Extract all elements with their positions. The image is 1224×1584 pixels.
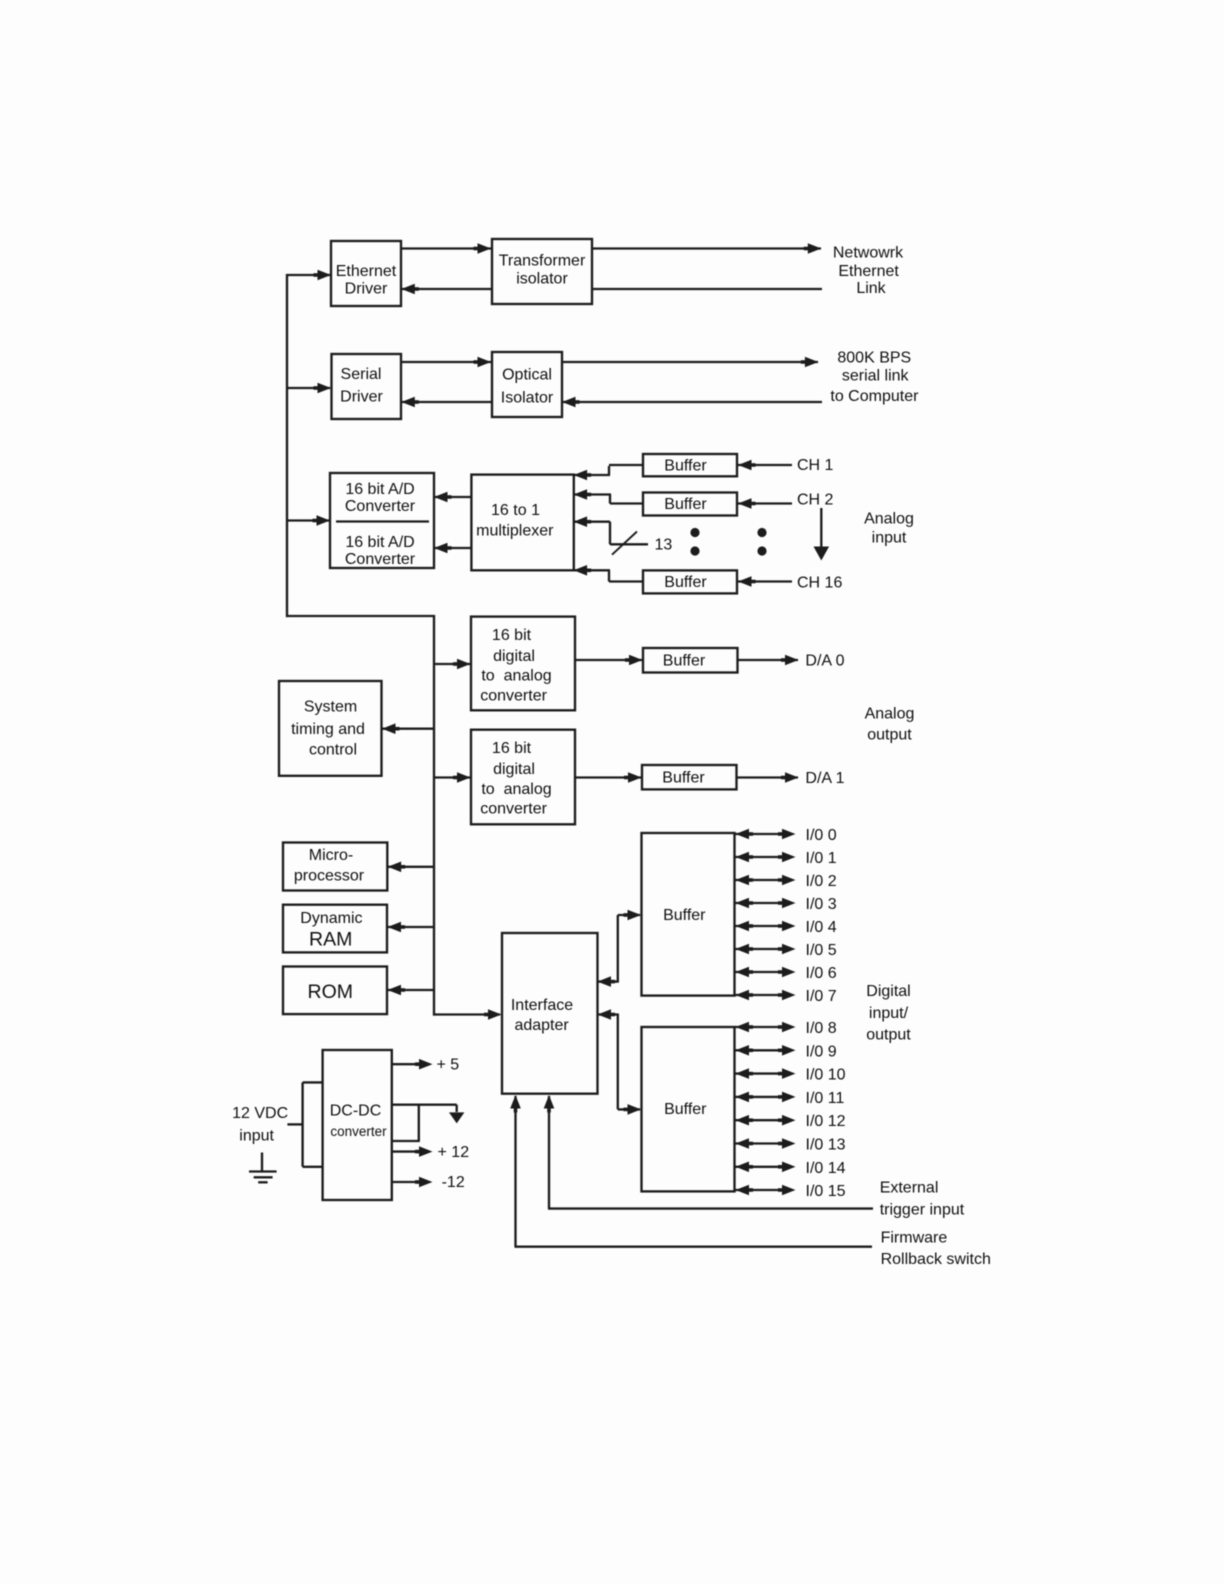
arrow I/O 9 into Buffer xyxy=(736,1045,750,1056)
svg-text:I/0 10: I/0 10 xyxy=(806,1067,846,1084)
svg-text:Analog: Analog xyxy=(865,706,915,723)
wire branch to Dynamic RAM xyxy=(388,926,435,928)
arrow I/O 0 outward xyxy=(782,829,796,840)
arrow mux input CH1 xyxy=(574,470,588,481)
arrow I/O 13 into Buffer xyxy=(736,1138,750,1149)
wire DAC 1 to Buffer xyxy=(575,776,641,778)
block DAC 1 (16 bit digital to analog converter) xyxy=(471,730,575,825)
block ROM xyxy=(283,967,387,1015)
wire +5 output xyxy=(391,1063,419,1065)
svg-text:Isolator: Isolator xyxy=(501,390,554,407)
wire -12 output xyxy=(391,1181,419,1183)
wire bus-right vertical xyxy=(433,615,435,1016)
svg-text:16 to 1: 16 to 1 xyxy=(491,502,540,519)
svg-text:CH 2: CH 2 xyxy=(797,492,834,509)
svg-text:D/A 1: D/A 1 xyxy=(805,770,844,787)
svg-text:Buffer: Buffer xyxy=(664,1101,707,1118)
arrow into Micro-processor xyxy=(388,862,402,873)
arrow into Transformer isolator xyxy=(478,243,492,254)
arrow network link out xyxy=(808,243,822,254)
svg-text:multiplexer: multiplexer xyxy=(476,522,554,539)
svg-text:Converter: Converter xyxy=(345,551,416,568)
arrow lower link into Interface adapter xyxy=(598,1009,612,1020)
ground symbol xyxy=(261,1153,263,1173)
wire I/O 6 line xyxy=(735,971,789,973)
svg-text:I/0 11: I/0 11 xyxy=(806,1090,845,1107)
svg-text:to analog: to analog xyxy=(481,781,551,798)
arrow CH2 into Buffer xyxy=(738,498,752,509)
arrow upper link into Interface adapter xyxy=(598,976,612,987)
arrow -12 xyxy=(419,1177,433,1188)
svg-text:input/: input/ xyxy=(869,1005,909,1022)
svg-text:Buffer: Buffer xyxy=(664,496,707,513)
arrow into Serial Driver xyxy=(318,383,332,394)
wire input bracket xyxy=(301,1082,303,1166)
wire Interface adapter to upper Buffer xyxy=(597,980,618,982)
svg-text:CH 1: CH 1 xyxy=(797,457,834,474)
svg-text:Optical: Optical xyxy=(502,367,552,384)
wire I/O 0 line xyxy=(735,833,789,835)
wire DAC 0 to Buffer xyxy=(575,659,642,661)
svg-text:+ 12: + 12 xyxy=(438,1144,470,1161)
svg-text:Link: Link xyxy=(856,280,886,297)
block Buffer CH1 xyxy=(643,454,737,476)
svg-text:digital: digital xyxy=(493,761,535,778)
arrow I/O 4 outward xyxy=(782,921,796,932)
arrow +5 xyxy=(419,1059,433,1070)
wire Ethernet Driver to Transformer isolator (tx) xyxy=(401,247,821,249)
svg-text:Driver: Driver xyxy=(345,281,388,298)
wire I/O 5 line xyxy=(735,948,789,950)
svg-text:RAM: RAM xyxy=(309,929,352,951)
svg-text:Buffer: Buffer xyxy=(662,770,705,787)
arrow I/O 8 outward xyxy=(782,1022,796,1033)
wire common/ground output xyxy=(391,1104,457,1106)
wire I/O 15 line xyxy=(735,1189,789,1191)
svg-text:converter: converter xyxy=(480,801,547,818)
wire 12 VDC input lead xyxy=(287,1123,303,1125)
arrow I/O 1 into Buffer xyxy=(736,852,750,863)
arrow I/O 14 into Buffer xyxy=(736,1162,750,1173)
arrow power common down xyxy=(449,1112,464,1123)
svg-text:Rollback switch: Rollback switch xyxy=(881,1251,991,1268)
wire I/O 9 line xyxy=(735,1049,789,1051)
arrow mux input CH16 xyxy=(574,565,588,576)
wire Buffer CH2 to multiplexer xyxy=(610,502,644,504)
svg-text:Firmware: Firmware xyxy=(881,1229,948,1246)
wire Network link return (rx) xyxy=(401,288,822,290)
wire branch to System timing and control xyxy=(382,728,435,730)
wire multiplexer to A/D converter B xyxy=(434,547,472,549)
arrow CH16 into Buffer xyxy=(738,576,752,587)
wire I/O 7 line xyxy=(735,994,789,996)
svg-text:control: control xyxy=(309,741,357,758)
ellipsis dots column 2 xyxy=(757,528,766,537)
svg-text:isolator: isolator xyxy=(516,270,568,287)
svg-text:Interface: Interface xyxy=(511,997,573,1014)
A/D converter divider xyxy=(336,520,429,522)
block 16 to 1 multiplexer xyxy=(471,475,573,571)
arrow return into Optical Isolator xyxy=(562,397,576,408)
wire external trigger input xyxy=(548,1096,550,1209)
bus-width slash 13 xyxy=(612,532,637,555)
svg-text:Buffer: Buffer xyxy=(663,653,706,670)
wire branch to A/D converters xyxy=(286,519,329,521)
block Optical Isolator xyxy=(492,352,562,417)
svg-text:Converter: Converter xyxy=(345,498,416,515)
arrow I/O 2 into Buffer xyxy=(736,875,750,886)
arrow into ROM xyxy=(388,985,402,996)
arrow into DAC 0 xyxy=(457,659,471,670)
svg-text:System: System xyxy=(304,699,357,716)
wire Buffer CH1 to multiplexer xyxy=(609,464,644,466)
block Buffer D/A 0 xyxy=(643,648,738,673)
wire branch to Serial Driver xyxy=(286,387,330,389)
wire I/O 4 line xyxy=(735,925,789,927)
svg-text:I/0 12: I/0 12 xyxy=(806,1113,846,1130)
svg-text:trigger input: trigger input xyxy=(880,1202,965,1219)
svg-text:processor: processor xyxy=(294,868,365,885)
svg-text:Dynamic: Dynamic xyxy=(300,910,362,927)
wire bus bottom horizontal xyxy=(286,615,435,617)
arrow I/O 3 outward xyxy=(782,898,796,909)
svg-text:ROM: ROM xyxy=(308,981,354,1003)
wire I/O 3 line xyxy=(735,902,789,904)
arrow into A/D converter B xyxy=(434,543,448,554)
arrow I/O 12 into Buffer xyxy=(736,1115,750,1126)
svg-text:Buffer: Buffer xyxy=(664,457,707,474)
svg-text:I/0 15: I/0 15 xyxy=(806,1183,846,1200)
block upper I/O Buffer xyxy=(642,833,735,996)
wire branch to ROM xyxy=(388,989,435,991)
block Transformer isolator xyxy=(492,239,592,304)
arrow CH1 into Buffer xyxy=(738,460,752,471)
arrow into Dynamic RAM xyxy=(388,922,402,933)
arrow I/O 6 into Buffer xyxy=(736,967,750,978)
arrow I/O 13 outward xyxy=(782,1138,796,1149)
svg-text:I/0 6: I/0 6 xyxy=(806,965,837,982)
wire branch to Ethernet Driver xyxy=(286,274,330,276)
wire serial link return (rx) xyxy=(401,401,822,403)
arrow I/O 15 outward xyxy=(782,1185,796,1196)
svg-text:D/A 0: D/A 0 xyxy=(805,652,844,669)
arrow I/O 10 into Buffer xyxy=(736,1068,750,1079)
svg-text:digital: digital xyxy=(493,648,535,665)
wire Serial Driver to Optical Isolator (tx) xyxy=(401,361,818,363)
wire branch to DAC 1 xyxy=(433,776,470,778)
svg-text:I/0 3: I/0 3 xyxy=(806,896,837,913)
svg-text:converter: converter xyxy=(480,687,547,704)
arrow DAC1 buffer in xyxy=(628,772,642,783)
svg-text:to Computer: to Computer xyxy=(830,388,919,405)
wire I/O 8 line xyxy=(735,1026,789,1028)
svg-text:I/0 9: I/0 9 xyxy=(806,1043,837,1060)
wire Buffer CH16 to multiplexer xyxy=(609,580,644,582)
svg-text:I/0 2: I/0 2 xyxy=(806,873,837,890)
wire bus-left vertical xyxy=(286,274,288,617)
wire CH 1 input xyxy=(737,464,792,466)
arrow serial link out xyxy=(805,357,819,368)
block Ethernet Driver xyxy=(331,241,401,306)
svg-text:output: output xyxy=(867,727,912,744)
block DAC 0 (16 bit digital to analog converter) xyxy=(471,617,575,711)
svg-text:I/0 14: I/0 14 xyxy=(806,1160,846,1177)
svg-text:+ 5: + 5 xyxy=(437,1057,460,1074)
svg-text:I/0 5: I/0 5 xyxy=(806,942,837,959)
arrow I/O 14 outward xyxy=(782,1162,796,1173)
svg-text:Serial: Serial xyxy=(341,366,382,383)
svg-text:I/0 7: I/0 7 xyxy=(806,988,837,1005)
svg-text:13: 13 xyxy=(655,536,673,553)
arrow return into Serial Driver xyxy=(401,397,415,408)
svg-text:serial link: serial link xyxy=(842,368,910,385)
svg-text:800K BPS: 800K BPS xyxy=(837,349,911,366)
svg-text:CH 16: CH 16 xyxy=(797,575,842,592)
arrow +12 xyxy=(419,1146,433,1157)
svg-text:External: External xyxy=(880,1180,939,1197)
arrow mux input CH2 xyxy=(574,489,588,500)
arrow I/O 12 outward xyxy=(782,1115,796,1126)
arrow I/O 5 outward xyxy=(782,944,796,955)
arrow I/O 7 outward xyxy=(782,990,796,1001)
svg-text:I/0 0: I/0 0 xyxy=(806,827,837,844)
wire branch to Interface adapter xyxy=(433,1013,500,1015)
svg-text:output: output xyxy=(866,1026,911,1043)
block Interface adapter xyxy=(502,933,598,1094)
arrow I/O 1 outward xyxy=(782,852,796,863)
arrow mux select xyxy=(574,516,588,527)
wire I/O 11 line xyxy=(735,1096,789,1098)
svg-text:Micro-: Micro- xyxy=(309,847,353,864)
arrow into upper Buffer xyxy=(628,910,642,921)
wire branch to Micro-processor xyxy=(388,866,435,868)
arrow into A/D converters xyxy=(317,515,331,526)
svg-text:16 bit A/D: 16 bit A/D xyxy=(345,481,414,498)
arrow return into Ethernet Driver xyxy=(401,284,415,295)
block Micro-processor xyxy=(283,843,387,891)
arrow into lower Buffer xyxy=(628,1104,642,1115)
arrow trigger into Interface adapter xyxy=(544,1095,555,1109)
wire Buffer to D/A 0 output xyxy=(737,659,798,661)
block DC-DC converter xyxy=(323,1050,392,1200)
wire CH 2 input xyxy=(737,502,792,504)
arrow into Optical Isolator xyxy=(478,357,492,368)
svg-text:I/0 8: I/0 8 xyxy=(806,1020,837,1037)
svg-text:I/0 1: I/0 1 xyxy=(806,850,837,867)
svg-text:Digital: Digital xyxy=(866,983,910,1000)
arrow I/O 5 into Buffer xyxy=(736,944,750,955)
arrow CH range down xyxy=(814,547,830,561)
wire Buffer to D/A 1 output xyxy=(736,776,798,778)
svg-text:timing and: timing and xyxy=(291,721,365,738)
svg-text:DC-DC: DC-DC xyxy=(330,1103,382,1120)
svg-text:Buffer: Buffer xyxy=(664,574,707,591)
wire common return hook xyxy=(418,1105,420,1141)
svg-text:to analog: to analog xyxy=(481,668,551,685)
wire +12 output xyxy=(391,1150,419,1152)
arrow DAC0 buffer in xyxy=(629,655,643,666)
arrow I/O 9 outward xyxy=(782,1045,796,1056)
svg-text:input: input xyxy=(872,530,907,547)
wire I/O 14 line xyxy=(735,1166,789,1168)
svg-text:I/0 4: I/0 4 xyxy=(806,919,837,936)
arrow I/O 2 outward xyxy=(782,875,796,886)
arrow D/A 0 out xyxy=(785,655,799,666)
arrow firmware into Interface adapter xyxy=(510,1095,521,1109)
arrow I/O 11 outward xyxy=(782,1092,796,1103)
svg-text:Analog: Analog xyxy=(864,511,914,528)
ellipsis dots column 1 xyxy=(690,528,699,537)
wire I/O 12 line xyxy=(735,1119,789,1121)
wire mux channel-select (13 lines) xyxy=(573,521,610,523)
svg-text:-12: -12 xyxy=(442,1174,465,1191)
block Buffer CH2 xyxy=(643,493,737,516)
block System timing and control xyxy=(279,681,382,776)
wire multiplexer to A/D converter A xyxy=(434,496,472,498)
svg-text:Netwowrk: Netwowrk xyxy=(833,245,904,262)
arrow I/O 10 outward xyxy=(782,1068,796,1079)
arrow into Interface adapter xyxy=(488,1009,502,1020)
svg-text:Ethernet: Ethernet xyxy=(336,263,397,280)
block lower I/O Buffer xyxy=(642,1027,735,1191)
arrow I/O 7 into Buffer xyxy=(736,990,750,1001)
block Buffer D/A 1 xyxy=(642,765,737,789)
arrow I/O 6 outward xyxy=(782,967,796,978)
arrow I/O 11 into Buffer xyxy=(736,1092,750,1103)
arrow D/A 1 out xyxy=(785,772,799,783)
svg-text:Transformer: Transformer xyxy=(499,253,586,270)
svg-text:Driver: Driver xyxy=(340,389,383,406)
arrow into System timing and control xyxy=(382,723,396,734)
arrow I/O 0 into Buffer xyxy=(736,829,750,840)
svg-text:input: input xyxy=(239,1127,274,1144)
arrow I/O 15 into Buffer xyxy=(736,1185,750,1196)
arrow I/O 4 into Buffer xyxy=(736,921,750,932)
wire CH 16 input xyxy=(737,580,792,582)
svg-text:Ethernet: Ethernet xyxy=(838,263,899,280)
wire I/O 13 line xyxy=(735,1142,789,1144)
wire I/O 1 line xyxy=(735,856,789,858)
wire Interface adapter to lower Buffer xyxy=(597,1013,618,1015)
svg-text:16 bit A/D: 16 bit A/D xyxy=(345,534,414,551)
arrow into DAC 1 xyxy=(457,772,471,783)
block Serial Driver xyxy=(332,354,402,419)
block Buffer CH16 xyxy=(643,570,737,593)
svg-text:16 bit: 16 bit xyxy=(492,627,532,644)
svg-text:converter: converter xyxy=(330,1124,387,1139)
wire CH2..CH16 range arrow shaft xyxy=(820,508,822,548)
svg-text:adapter: adapter xyxy=(514,1017,569,1034)
block 16 bit A/D Converters xyxy=(330,473,434,568)
svg-text:16 bit: 16 bit xyxy=(492,740,532,757)
arrow I/O 3 into Buffer xyxy=(736,898,750,909)
svg-text:Buffer: Buffer xyxy=(663,907,706,924)
block Dynamic RAM xyxy=(283,905,387,953)
arrow into A/D converter A xyxy=(434,492,448,503)
wire I/O 10 line xyxy=(735,1072,789,1074)
arrow into Ethernet Driver xyxy=(318,270,332,281)
wire firmware rollback switch xyxy=(514,1096,516,1247)
wire I/O 2 line xyxy=(735,879,789,881)
svg-text:12 VDC: 12 VDC xyxy=(232,1105,288,1122)
svg-text:I/0 13: I/0 13 xyxy=(806,1137,846,1154)
arrow I/O 8 into Buffer xyxy=(736,1022,750,1033)
wire branch to DAC 0 xyxy=(433,663,470,665)
